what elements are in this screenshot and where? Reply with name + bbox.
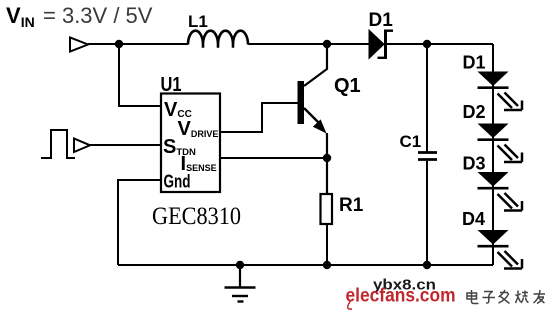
pulse input waveform symbol	[41, 130, 75, 158]
svg-text:C1: C1	[400, 132, 422, 151]
svg-text:D4: D4	[462, 209, 485, 229]
pin label Vcc	[164, 99, 192, 121]
watermark chinese characters (zi)	[483, 292, 496, 303]
wire: VDRIVE to Q1 base	[220, 103, 298, 132]
label R1	[339, 195, 364, 216]
label D1 (LED)	[463, 53, 486, 73]
wire: ISENSE to Q1 emitter node	[220, 157, 327, 159]
svg-text:R1: R1	[339, 195, 364, 216]
watermark elecfans.com	[346, 285, 456, 310]
wire: LED chain vertical	[492, 44, 494, 265]
part number GEC8310	[152, 203, 241, 230]
svg-text:D2: D2	[463, 102, 486, 122]
svg-text:GEC8310: GEC8310	[152, 203, 241, 230]
junction dot: C1 bottom on ground rail	[423, 261, 431, 269]
watermark chinese characters (dian)	[467, 290, 479, 304]
label D4 (LED)	[462, 209, 485, 229]
IC U1 body	[161, 94, 220, 193]
svg-text:elecfans.com: elecfans.com	[346, 285, 456, 307]
pin label Gnd	[164, 172, 191, 192]
LED D3	[478, 172, 523, 211]
svg-text:= 3.3V / 5V: = 3.3V / 5V	[43, 3, 153, 28]
junction dot: C1 top	[423, 40, 431, 48]
LED D4	[478, 230, 523, 269]
ground symbol	[225, 261, 256, 302]
junction dot: ISENSE / emitter / R1 node	[323, 154, 331, 162]
wire: Gnd pin to ground rail	[118, 180, 161, 265]
junction dot: Q1 collector on top rail	[323, 40, 331, 48]
svg-text:D1: D1	[369, 10, 394, 31]
wire: R1 to ground rail	[326, 224, 328, 265]
svg-text:D3: D3	[463, 154, 486, 174]
LED D1	[478, 72, 523, 111]
transistor Q1 (NPN)	[298, 44, 328, 194]
wire: Vcc tap vertical	[119, 44, 161, 106]
label Q1	[334, 75, 361, 97]
watermark chinese characters (shao)	[516, 291, 529, 304]
junction dot: VIN tap to U1 Vcc	[115, 40, 123, 48]
svg-text:Gnd: Gnd	[164, 172, 191, 192]
watermark chinese characters (you)	[534, 290, 546, 304]
junction dot: R1 bottom on ground rail	[323, 261, 331, 269]
label D1 (schottky diode)	[369, 10, 394, 31]
pulse input terminal arrow	[74, 139, 90, 153]
pin label ISENSE	[181, 153, 217, 175]
watermark chinese characters (fa)	[499, 290, 510, 304]
LED D2	[478, 124, 523, 163]
resistor R1	[321, 194, 333, 224]
svg-text:D1: D1	[463, 53, 486, 73]
wire: VIN arrow to inductor L1	[88, 43, 188, 45]
input terminal arrow (VIN input)	[70, 38, 88, 52]
svg-text:L1: L1	[188, 12, 208, 31]
inductor L1	[188, 31, 248, 48]
label C1	[400, 132, 422, 151]
pin label VDRIVE	[178, 118, 219, 140]
wire: pulse input to STDN pin	[90, 144, 161, 146]
svg-text:U1: U1	[161, 74, 182, 96]
pin label STDN	[163, 136, 196, 158]
label D3 (LED)	[463, 154, 486, 174]
label U1	[161, 74, 182, 96]
wire: inductor L1 to diode D1 anode	[248, 43, 369, 45]
svg-text:Q1: Q1	[334, 75, 361, 97]
watermark ybx8.cn	[373, 277, 436, 294]
label D2 (LED)	[463, 102, 486, 122]
label L1	[188, 12, 208, 31]
schottky diode D1	[369, 30, 393, 60]
net label VIN = 3.3V / 5V	[6, 3, 153, 30]
capacitor C1	[418, 44, 437, 265]
wire: diode D1 cathode to LED chain top	[387, 43, 493, 45]
wire: bottom ground rail	[118, 264, 493, 266]
